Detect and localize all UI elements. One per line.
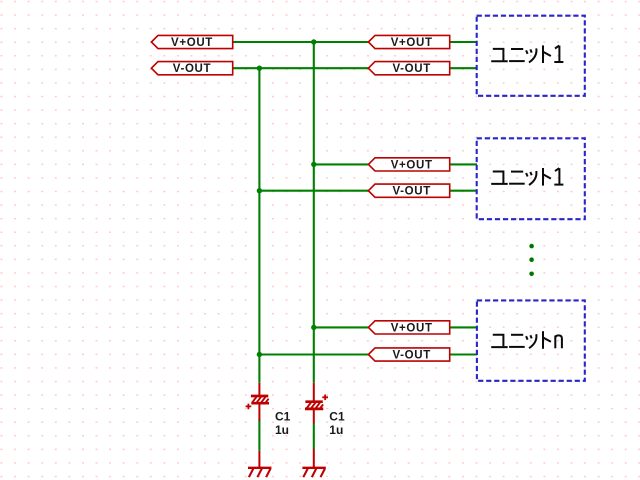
- C1 right top plate: [305, 400, 322, 403]
- unit box n (dashed): [477, 300, 585, 380]
- junction at V+OUT row3 / vertical bus: [311, 325, 316, 330]
- junction at V+OUT row1 / vertical bus: [311, 39, 316, 44]
- global label V+OUT right row2: [368, 158, 449, 172]
- unit box 1 text ユニット1: [491, 45, 563, 63]
- svg-text:V-OUT: V-OUT: [393, 350, 431, 362]
- C1 left bottom lead: [258, 404, 260, 421]
- wire net V-OUT row1 to unit1: [450, 67, 477, 69]
- capacitor C1 left (polarized): [246, 383, 269, 421]
- global label V+OUT left top: [151, 35, 232, 49]
- C1 left top lead: [258, 383, 260, 395]
- junction at V+OUT row2 / vertical bus: [311, 162, 316, 167]
- ground right bar: [302, 467, 325, 469]
- ground left hatches: [249, 469, 271, 478]
- svg-text:1u: 1u: [329, 423, 343, 437]
- global label V+OUT right row3: [368, 321, 449, 335]
- svg-text:1u: 1u: [275, 423, 289, 437]
- svg-text:V+OUT: V+OUT: [391, 322, 433, 334]
- C1 right plus sign: [322, 395, 328, 401]
- junction at V-OUT row2 / vertical bus: [257, 188, 262, 193]
- svg-text:V+OUT: V+OUT: [171, 37, 213, 49]
- svg-text:V-OUT: V-OUT: [393, 186, 431, 198]
- C1 right hatch: [307, 403, 323, 408]
- junction at V-OUT row1 / vertical bus: [257, 66, 262, 71]
- svg-text:C1: C1: [329, 410, 345, 424]
- C1 left bottom plate: [251, 402, 269, 405]
- C1 left plus sign: [246, 404, 252, 410]
- wire net V-OUT row3 to unitn: [450, 353, 477, 355]
- global label V+OUT right row1: [368, 35, 449, 49]
- unit box 1 (dashed): [477, 16, 585, 96]
- C1 right bottom lead: [313, 409, 315, 423]
- wire below C1 left to ground: [258, 419, 260, 451]
- capacitor C1 right (polarized): [305, 383, 328, 424]
- wire V-OUT vertical bus: [258, 68, 260, 383]
- global label V-OUT right row2: [368, 184, 449, 198]
- ground right pin: [313, 449, 315, 467]
- wire net V+OUT row2 to unit1b: [450, 163, 477, 165]
- svg-text:V+OUT: V+OUT: [391, 37, 433, 49]
- ellipsis dot 2: [529, 257, 534, 262]
- wire net V-OUT row1 horizontal: [233, 67, 369, 69]
- svg-text:C1: C1: [275, 410, 291, 424]
- ground symbol left: [248, 451, 271, 477]
- C1 left hatch: [252, 397, 268, 402]
- wire net V+OUT row2 horizontal: [314, 163, 369, 165]
- wire V+OUT vertical bus: [313, 42, 315, 383]
- C1 left top plate: [251, 395, 268, 398]
- global label V-OUT right row1: [368, 62, 449, 76]
- C1 right top lead: [313, 383, 315, 401]
- ground right hatches: [303, 469, 325, 478]
- junction at V-OUT row3 / vertical bus: [257, 352, 262, 357]
- ground left bar: [248, 467, 271, 469]
- C1 right bottom plate: [305, 408, 323, 411]
- svg-text:V+OUT: V+OUT: [391, 159, 433, 171]
- global label V-OUT left top: [151, 62, 232, 76]
- unit box 2 text ユニット1: [491, 168, 563, 186]
- ellipsis dot 1: [529, 244, 534, 249]
- svg-text:V-OUT: V-OUT: [393, 63, 431, 75]
- unit box 2 (dashed): [477, 138, 585, 219]
- wire net V-OUT row2 horizontal: [259, 190, 369, 192]
- svg-text:V-OUT: V-OUT: [173, 63, 211, 75]
- unit box n text ユニットn: [491, 331, 562, 349]
- wire net V-OUT row2 to unit1b: [450, 190, 477, 192]
- wire net V-OUT row3 horizontal: [259, 353, 369, 355]
- wire net V+OUT row3 horizontal: [314, 326, 369, 328]
- wire net V+OUT row3 to unitn: [450, 326, 477, 328]
- wire net V+OUT row1 horizontal: [233, 41, 369, 43]
- ellipsis dot 3: [529, 272, 534, 277]
- wire below C1 right to ground: [313, 424, 315, 450]
- ground symbol right: [302, 449, 325, 477]
- global label V-OUT right row3: [368, 348, 449, 362]
- wire net V+OUT row1 to unit1: [450, 41, 477, 43]
- ground left pin: [258, 451, 260, 467]
